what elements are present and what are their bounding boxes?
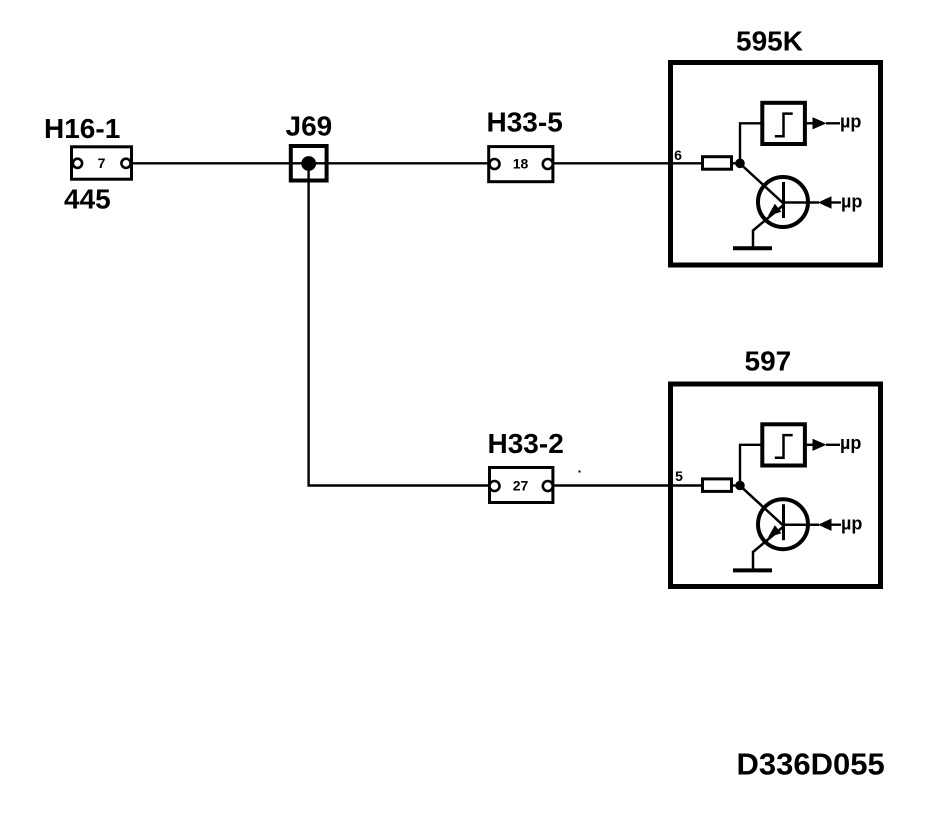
pin circle H33-2 left <box>490 481 500 491</box>
schmitt trigger box (597) <box>762 424 805 465</box>
transistor base bar (595K) <box>782 182 785 218</box>
pin circle H16-1 left <box>73 159 82 168</box>
schmitt step symbol (597) <box>775 435 793 458</box>
transistor base wire from uP (597) <box>784 523 820 526</box>
transistor emitter wire (595K) <box>753 205 784 231</box>
arrow uP to base (595K) <box>818 196 832 208</box>
svg-text:18: 18 <box>513 155 529 171</box>
node junction dot (595K) <box>735 159 745 169</box>
wire resistor to node (597) <box>732 484 741 486</box>
pin circle H33-5 left <box>490 159 500 169</box>
pin circle H33-2 right <box>543 481 553 491</box>
wire arrow to uP label (597) <box>826 444 840 446</box>
wire schmitt output (597) <box>805 444 814 446</box>
wire schmitt output (595K) <box>805 122 814 124</box>
wire pin 5 to resistor <box>670 484 703 486</box>
wire arrow to uP label lower (597) <box>831 524 841 526</box>
wire H16-1 through J69 to H33-5 <box>131 162 490 164</box>
arrow schmitt output to uP (595K) <box>813 117 827 129</box>
svg-text:597: 597 <box>745 346 792 377</box>
svg-text:H33-5: H33-5 <box>487 107 563 138</box>
svg-text:6: 6 <box>674 147 682 163</box>
emitter to ground wire (597) <box>752 551 755 569</box>
svg-text:445: 445 <box>64 184 111 215</box>
svg-text:595K: 595K <box>736 26 803 57</box>
wire H33-2 to module 597 <box>553 484 670 486</box>
node junction dot (597) <box>735 481 745 491</box>
resistor in 597 <box>703 479 732 492</box>
arrow uP to base (597) <box>818 519 832 531</box>
connector H16-1 box <box>72 147 132 179</box>
svg-text:µp: µp <box>841 514 862 534</box>
transistor circle (597) <box>758 499 808 549</box>
schmitt trigger box (595K) <box>762 103 805 144</box>
transistor base wire from uP (595K) <box>784 201 820 204</box>
svg-text:µp: µp <box>840 433 861 453</box>
arrow schmitt output to uP (597) <box>813 439 827 451</box>
connector H33-2 box <box>490 468 553 503</box>
wire arrow to uP label lower (595K) <box>831 201 841 203</box>
wire pin 6 to resistor <box>670 162 703 164</box>
svg-text:D336D055: D336D055 <box>737 747 885 782</box>
svg-text:H33-2: H33-2 <box>488 428 564 459</box>
svg-text:27: 27 <box>513 478 529 494</box>
emitter arrowhead (595K) <box>768 204 781 216</box>
wire node to schmitt input (597) <box>740 445 762 486</box>
transistor base bar (597) <box>782 504 785 540</box>
wire arrow to uP label (595K) <box>826 122 840 124</box>
svg-text:7: 7 <box>98 155 106 171</box>
wire node to schmitt input (595K) <box>740 123 762 163</box>
pin circle H16-1 right <box>121 159 130 168</box>
ground symbol (595K) <box>733 246 772 250</box>
junction J69 box <box>291 146 327 181</box>
svg-text:5: 5 <box>675 468 683 484</box>
svg-text:µp: µp <box>840 111 861 131</box>
emitter to ground wire (595K) <box>752 230 755 248</box>
wire node to transistor collector (597) <box>741 486 784 526</box>
transistor emitter wire (597) <box>753 527 784 553</box>
resistor in 595K <box>703 157 732 170</box>
speck artifact <box>579 471 581 473</box>
connector H33-5 box <box>489 147 553 182</box>
wire node to transistor collector (595K) <box>741 164 784 204</box>
module 595K box <box>671 63 881 266</box>
svg-text:J69: J69 <box>286 111 333 142</box>
schmitt step symbol (595K) <box>775 114 793 137</box>
junction J69 dot <box>301 156 316 171</box>
wire H33-5 to module 595K <box>553 162 670 164</box>
svg-text:µp: µp <box>841 192 862 212</box>
emitter arrowhead (597) <box>768 525 781 537</box>
wire resistor to node (595K) <box>732 162 741 164</box>
wire J69 down to lower branch <box>309 170 489 486</box>
module 597 box <box>671 384 881 587</box>
svg-text:H16-1: H16-1 <box>44 113 120 144</box>
transistor circle (595K) <box>758 177 808 227</box>
ground symbol (597) <box>733 568 772 572</box>
pin circle H33-5 right <box>543 159 553 169</box>
